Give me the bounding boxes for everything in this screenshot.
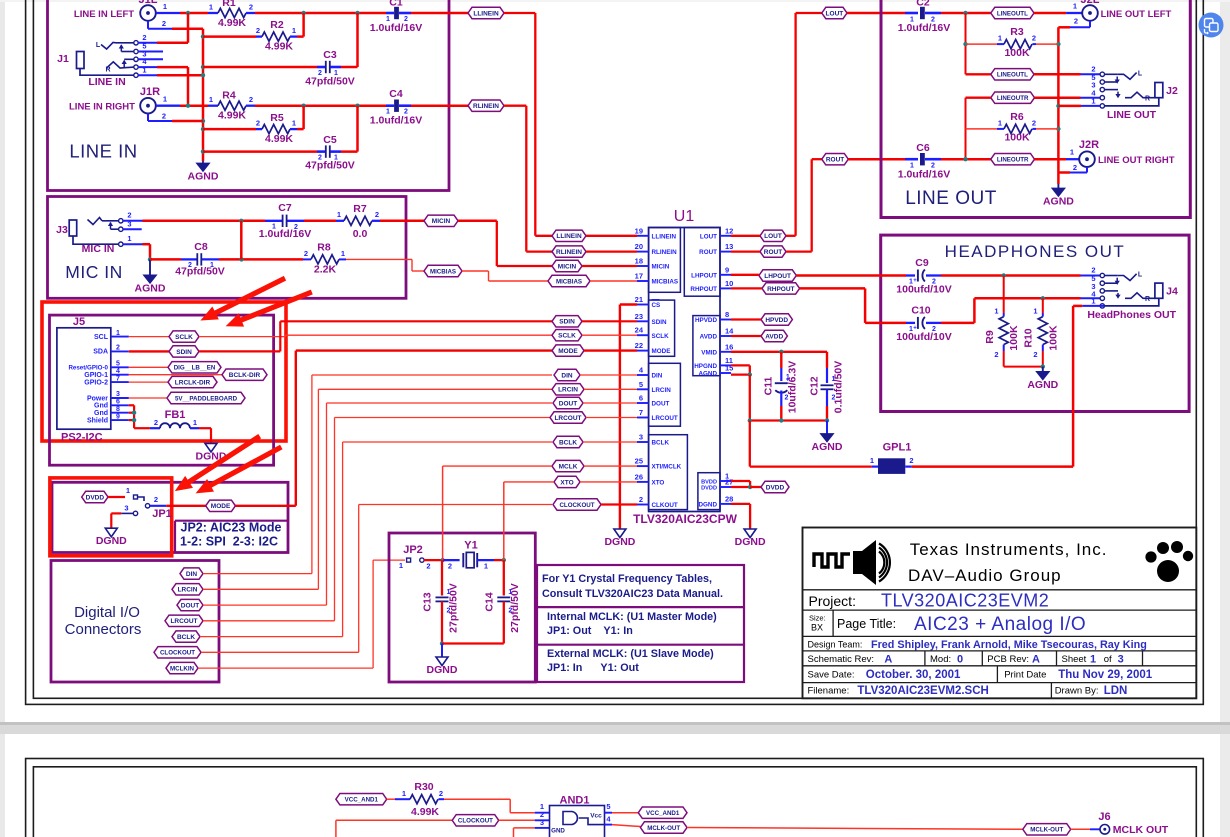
- connector J2 jack: [1100, 72, 1104, 76]
- svg-text:AGND: AGND: [698, 371, 717, 378]
- net tag SCLK (J5): [169, 331, 199, 342]
- svg-text:1: 1: [126, 486, 130, 495]
- svg-text:XTO: XTO: [560, 479, 573, 486]
- svg-text:MODE: MODE: [211, 503, 231, 510]
- wire AND1 pin5 VCC: [605, 812, 613, 814]
- svg-text:VCC_AND1: VCC_AND1: [345, 797, 379, 804]
- svg-text:4.99K: 4.99K: [218, 17, 246, 29]
- wire J1L pin2 to AGND rail: [147, 21, 149, 29]
- net tag LRCIN (digital io): [172, 584, 203, 595]
- svg-text:47pfd/50V: 47pfd/50V: [305, 76, 355, 88]
- svg-text:HPVDD: HPVDD: [695, 317, 717, 324]
- browser overlay button: [1199, 13, 1224, 38]
- net tag MICIN (U1): [552, 260, 582, 271]
- svg-text:LRCOUT: LRCOUT: [170, 618, 197, 625]
- svg-text:MCLKIN: MCLKIN: [170, 666, 195, 673]
- svg-text:R1: R1: [222, 0, 236, 9]
- svg-text:100K: 100K: [1048, 325, 1060, 351]
- resistor R10: [1042, 298, 1044, 313]
- svg-text:LLINEIN: LLINEIN: [556, 233, 582, 240]
- svg-text:J1R: J1R: [140, 86, 160, 98]
- svg-text:R10: R10: [1023, 328, 1035, 347]
- svg-text:C2: C2: [916, 0, 930, 9]
- ic U1 sub-box clock: [649, 435, 688, 510]
- pin U1 15 AGND: [720, 372, 731, 374]
- annotation arrow 4 (JP1): [209, 447, 282, 486]
- svg-text:Project:: Project:: [809, 593, 856, 609]
- svg-text:PCB Rev:: PCB Rev:: [987, 654, 1029, 665]
- wire AGND rail (line out): [1057, 27, 1060, 184]
- svg-text:JP1: JP1: [152, 508, 172, 520]
- ground DGND (Y1): [441, 644, 443, 658]
- svg-text:5: 5: [606, 802, 610, 811]
- svg-text:AVDD: AVDD: [700, 334, 718, 341]
- wire C2 to LINEOUTL tag: [941, 12, 991, 15]
- svg-text:BCLK: BCLK: [177, 634, 195, 641]
- capacitor C13: [441, 560, 443, 595]
- svg-text:Mod:: Mod:: [930, 654, 951, 665]
- svg-text:Power: Power: [87, 395, 108, 402]
- wire J5 GPIO-2: [129, 381, 168, 383]
- net tag BCLK (U1): [553, 436, 583, 447]
- net tag AVDD: [761, 330, 787, 341]
- wire C1 to LLINEIN tag: [411, 12, 468, 15]
- svg-text:47pfd/50V: 47pfd/50V: [175, 266, 225, 278]
- svg-text:1: 1: [1033, 307, 1037, 316]
- box HEADPHONES OUT: [881, 235, 1189, 411]
- wire J5 ground pins to FB1: [129, 404, 134, 406]
- svg-text:TLV320AIC23EVM2.SCH: TLV320AIC23EVM2.SCH: [857, 685, 988, 697]
- svg-text:U1: U1: [674, 208, 695, 225]
- wire MICBIAS to U1: [462, 270, 489, 272]
- box Digital I/O Connectors: [51, 561, 219, 683]
- wire mic bias vertical: [240, 221, 243, 260]
- svg-text:MCLK: MCLK: [559, 464, 578, 471]
- svg-text:1: 1: [193, 418, 197, 427]
- pin U1 10 RHPOUT: [720, 287, 731, 289]
- wire R8 to MICBIAS tag: [346, 258, 412, 260]
- connector J4 body: [1155, 283, 1163, 298]
- svg-text:LOUT: LOUT: [764, 233, 782, 240]
- svg-text:6: 6: [639, 394, 643, 403]
- svg-text:AGND: AGND: [812, 441, 843, 453]
- resistor R6: [966, 128, 998, 130]
- svg-text:LDN: LDN: [1104, 685, 1128, 697]
- wire J1 pin4 to J1R node: [157, 66, 188, 69]
- svg-text:HPGND: HPGND: [694, 363, 717, 370]
- svg-text:A: A: [1032, 654, 1040, 666]
- wire MCLKIN to JP2: [198, 667, 373, 669]
- svg-text:C12: C12: [809, 376, 821, 395]
- wire R7 to MICIN tag: [380, 220, 424, 223]
- svg-text:C5: C5: [323, 134, 337, 146]
- pin U1 9 LHPOUT: [720, 274, 731, 276]
- svg-text:MCLK-OUT: MCLK-OUT: [647, 825, 680, 832]
- svg-text:27pfd/50V: 27pfd/50V: [509, 583, 521, 633]
- svg-text:1: 1: [163, 95, 167, 104]
- svg-text:MICBIAS: MICBIAS: [430, 268, 456, 275]
- svg-text:100K: 100K: [1008, 325, 1020, 351]
- svg-text:LINE OUT: LINE OUT: [1107, 109, 1157, 121]
- resistor R9: [1003, 276, 1005, 314]
- wire CLOCKOUT to AND1 pin2: [499, 819, 535, 821]
- net tag CLOCKOUT (page2): [335, 820, 337, 837]
- svg-text:MODE: MODE: [558, 348, 578, 355]
- wire C6 to LINEOUTR tag: [941, 158, 991, 161]
- svg-text:LRCOUT: LRCOUT: [652, 415, 678, 422]
- svg-text:AGND: AGND: [188, 171, 219, 183]
- svg-text:DOUT: DOUT: [652, 401, 670, 408]
- net tag LINEOUTR (jack): [991, 92, 1035, 103]
- svg-text:MICBIAS: MICBIAS: [652, 279, 679, 286]
- net tag LHPOUT (U1): [759, 270, 796, 281]
- wire C11/C12 ground row: [750, 419, 827, 421]
- svg-text:JP2: AIC23 Mode: JP2: AIC23 Mode: [181, 521, 282, 535]
- wire SCLK to U1: [199, 336, 286, 338]
- svg-text:R9: R9: [984, 330, 996, 344]
- svg-text:1: 1: [292, 26, 296, 35]
- svg-text:VMID: VMID: [701, 349, 717, 356]
- svg-text:VCC_AND1: VCC_AND1: [646, 810, 680, 817]
- svg-text:2: 2: [375, 210, 379, 219]
- wire R3 to AGND rail: [1036, 43, 1058, 45]
- svg-text:2: 2: [909, 456, 913, 465]
- wire J2R pin2: [1086, 167, 1088, 173]
- svg-text:13: 13: [725, 242, 733, 251]
- svg-text:LRCIN: LRCIN: [178, 587, 198, 594]
- svg-text:BX: BX: [811, 623, 823, 633]
- svg-text:23: 23: [635, 312, 643, 321]
- ic U1 sub-box line out: [684, 228, 720, 297]
- net tag CLOCKOUT (digital io): [154, 647, 201, 658]
- annotation box J5 (red): [42, 302, 286, 441]
- text Save Date row: [996, 666, 998, 683]
- net tag LINEOUTL (jack): [966, 73, 991, 75]
- net tag LINEOUTL (top): [991, 7, 1034, 18]
- pin U1 14 AVDD: [720, 335, 731, 337]
- svg-text:12: 12: [725, 226, 733, 235]
- svg-text:LINE OUT: LINE OUT: [905, 188, 997, 209]
- capacitor C12: [826, 352, 828, 368]
- svg-text:FB1: FB1: [165, 409, 186, 421]
- net tag LLINEIN (U1): [552, 230, 586, 241]
- net tag MICBIAS (mic box): [424, 265, 462, 276]
- svg-text:LOUT: LOUT: [826, 10, 844, 17]
- net tag SDIN (J5): [169, 346, 199, 357]
- ground AGND (mic in): [149, 259, 151, 275]
- resistor R4: [208, 105, 218, 107]
- ground DGND (CS): [614, 529, 626, 538]
- svg-text:4.99K: 4.99K: [265, 133, 293, 145]
- wire C5 to R4 out: [341, 150, 358, 153]
- svg-text:AVDD: AVDD: [765, 333, 783, 340]
- svg-text:AGND: AGND: [1027, 379, 1058, 391]
- svg-text:4.99K: 4.99K: [265, 41, 293, 53]
- svg-text:Sheet: Sheet: [1062, 654, 1087, 665]
- svg-text:1: 1: [1091, 96, 1095, 105]
- svg-text:For Y1 Crystal Frequency Table: For Y1 Crystal Frequency Tables,: [542, 573, 712, 585]
- svg-text:SCLK: SCLK: [175, 334, 193, 341]
- svg-text:AGND: AGND: [1043, 196, 1074, 208]
- wire R9/R10 ground row: [1004, 366, 1043, 368]
- svg-text:C6: C6: [916, 142, 930, 154]
- wire C4 to RLINEIN tag: [411, 104, 468, 107]
- net tag SDIN (U1): [552, 316, 582, 327]
- svg-text:ROUT: ROUT: [826, 157, 844, 164]
- net tag LRCLK-DIR: [168, 376, 217, 387]
- svg-text:100K: 100K: [1004, 47, 1030, 59]
- connector J2 body: [1155, 83, 1163, 98]
- wire LINEOUTL tag to J2 pin2: [1034, 73, 1081, 76]
- svg-text:Design Team:: Design Team:: [808, 640, 863, 650]
- capacitor C2: [905, 12, 918, 15]
- svg-text:Thu Nov 29, 2001: Thu Nov 29, 2001: [1058, 669, 1153, 681]
- capacitor C9: [906, 274, 915, 276]
- wire J3 pin2 row: [123, 220, 143, 222]
- svg-text:2: 2: [154, 418, 158, 427]
- svg-text:LINE IN RIGHT: LINE IN RIGHT: [69, 102, 135, 113]
- svg-text:0.1ufd/50V: 0.1ufd/50V: [833, 361, 845, 414]
- wire JP2 pin2 to Y1: [424, 559, 443, 561]
- svg-text:Size:: Size:: [809, 614, 826, 623]
- box J5 PS2-I2C: [50, 315, 274, 465]
- capacitor C5: [203, 150, 317, 153]
- capacitor C11: [780, 352, 782, 368]
- net tag VCC_AND1 (right): [638, 807, 687, 818]
- wire J3 pin1 to AGND: [123, 243, 143, 245]
- svg-text:C7: C7: [278, 202, 292, 214]
- wire LINEOUTL node vertical: [965, 13, 967, 74]
- svg-text:16: 16: [725, 342, 733, 351]
- svg-text:1.0ufd/16V: 1.0ufd/16V: [259, 228, 312, 240]
- svg-text:J3: J3: [56, 224, 68, 236]
- svg-text:25: 25: [635, 457, 643, 466]
- svg-text:Drawn By:: Drawn By:: [1055, 686, 1099, 697]
- pin U1 16 VMID: [720, 351, 731, 353]
- svg-text:Gnd: Gnd: [94, 403, 108, 410]
- svg-text:MIC IN: MIC IN: [65, 262, 122, 282]
- svg-text:DVDD: DVDD: [766, 484, 785, 491]
- wire BVDD/DVDD join: [731, 480, 750, 482]
- AGND rail junction dots: [201, 34, 205, 38]
- ground DGND (JP1): [105, 528, 117, 537]
- svg-text:LINE IN: LINE IN: [69, 141, 137, 162]
- svg-text:SCLK: SCLK: [652, 333, 670, 340]
- svg-text:100K: 100K: [1004, 132, 1030, 144]
- wire RLINEIN to U1: [504, 105, 526, 107]
- svg-text:C10: C10: [911, 305, 930, 317]
- net tag DIG_LB_EN: [168, 362, 221, 373]
- wire J1 tip-L to J1L node: [187, 13, 190, 43]
- capacitor C6: [905, 158, 918, 161]
- svg-text:RLINEIN: RLINEIN: [473, 103, 499, 110]
- pin U1 17 MICBIAS: [637, 280, 649, 282]
- svg-text:DGND: DGND: [427, 664, 458, 676]
- wire DIN to U1: [203, 573, 312, 575]
- svg-text:26: 26: [635, 472, 643, 481]
- pin U1 19 LLINEIN: [637, 235, 649, 237]
- wire R4 to C4: [255, 104, 386, 107]
- net tag BCLK-DIR: [222, 369, 267, 380]
- net tag MCLK-OUT (AND1): [640, 822, 687, 833]
- wire MICIN to U1: [458, 220, 497, 223]
- svg-text:R8: R8: [317, 242, 331, 254]
- svg-text:1: 1: [399, 561, 403, 570]
- wire C13/C14 ground row: [442, 642, 504, 644]
- svg-text:1: 1: [484, 562, 488, 571]
- net tag MCLK-OUT (J6): [1023, 824, 1071, 835]
- svg-text:DIG__LB__EN: DIG__LB__EN: [174, 365, 216, 372]
- svg-text:J2: J2: [1166, 85, 1178, 97]
- svg-text:2: 2: [256, 119, 260, 128]
- svg-text:LINEOUTL: LINEOUTL: [997, 10, 1028, 17]
- svg-text:10: 10: [725, 279, 733, 288]
- svg-text:2: 2: [448, 562, 452, 571]
- wire LINEOUTR to J2R: [1035, 158, 1067, 161]
- svg-text:DIN: DIN: [652, 373, 663, 380]
- ic U1 sub-box power: [693, 316, 720, 376]
- wire J5 GPIO-1: [129, 374, 222, 376]
- ground DGND (J5): [205, 443, 217, 452]
- svg-text:2: 2: [439, 789, 443, 798]
- svg-text:2: 2: [1074, 17, 1078, 26]
- svg-text:C13: C13: [422, 592, 434, 611]
- svg-text:L: L: [96, 42, 101, 49]
- box LINE IN: [48, 0, 450, 191]
- svg-text:1: 1: [209, 3, 213, 12]
- svg-text:L: L: [1138, 272, 1143, 279]
- svg-text:2: 2: [127, 211, 131, 220]
- pin U1 5 LRCIN: [637, 388, 649, 390]
- svg-text:1: 1: [1073, 2, 1077, 11]
- wire LRCOUT to U1: [203, 620, 335, 622]
- wire AGND rail vertical: [202, 29, 205, 161]
- wire J1 pin1 sleeve to AGND rail: [157, 74, 203, 77]
- svg-text:LRCIN: LRCIN: [652, 387, 672, 394]
- net tag MICBIAS (U1): [548, 275, 590, 286]
- annotation arrow 2 (J5): [240, 292, 312, 321]
- net tag LOUT (U1): [760, 230, 786, 241]
- box JP1/JP2 note: [52, 482, 288, 552]
- resistor R5: [203, 128, 256, 131]
- svg-text:C11: C11: [763, 377, 775, 396]
- svg-text:JP1: Out Y1: In: JP1: Out Y1: In: [547, 625, 633, 637]
- wire DOUT to U1: [203, 604, 327, 606]
- svg-text:Reset/GPIO-0: Reset/GPIO-0: [68, 365, 108, 372]
- svg-text:4.99K: 4.99K: [411, 806, 439, 818]
- wire J5 Power: [129, 397, 167, 399]
- svg-text:GPL1: GPL1: [883, 442, 912, 454]
- svg-text:2: 2: [426, 562, 430, 571]
- svg-text:2: 2: [1032, 34, 1036, 43]
- pin U1 23 SDIN: [637, 320, 649, 322]
- svg-text:27pfd/50V: 27pfd/50V: [448, 583, 460, 633]
- wire U1 CS to DGND: [620, 303, 637, 305]
- svg-text:18: 18: [635, 257, 643, 266]
- net tag SCLK (U1): [552, 330, 582, 341]
- svg-text:7: 7: [639, 408, 643, 417]
- svg-text:2: 2: [994, 350, 998, 359]
- pin U1 20 RLINEIN: [637, 251, 649, 253]
- svg-text:28: 28: [725, 494, 733, 503]
- box Y1 crystal: [389, 533, 535, 682]
- wire J2L pin2: [1089, 21, 1091, 28]
- svg-text:Schematic Rev:: Schematic Rev:: [808, 654, 875, 665]
- svg-text:20: 20: [635, 242, 643, 251]
- wire MCLK-OUT long: [687, 828, 1023, 830]
- svg-text:LLINEIN: LLINEIN: [473, 10, 499, 17]
- svg-text:L: L: [1138, 71, 1143, 78]
- resistor R7: [304, 220, 336, 223]
- svg-text:DGND: DGND: [604, 536, 635, 548]
- svg-text:9: 9: [725, 265, 729, 274]
- svg-text:1: 1: [1070, 148, 1074, 157]
- net tag LRCIN (U1): [552, 384, 584, 395]
- ground AGND (line in): [202, 161, 204, 163]
- svg-text:HeadPhones OUT: HeadPhones OUT: [1087, 309, 1176, 321]
- svg-text:XTO: XTO: [652, 480, 665, 487]
- svg-text:24: 24: [635, 326, 644, 335]
- svg-text:LINE IN: LINE IN: [88, 76, 125, 88]
- ground AGND (C11/C12): [826, 421, 828, 434]
- svg-text:Filename:: Filename:: [808, 686, 850, 697]
- pin U1 12 LOUT: [720, 235, 731, 237]
- svg-text:RHPOUT: RHPOUT: [767, 286, 794, 293]
- box crystal notes: [537, 565, 744, 682]
- annotation box JP1 (red): [50, 478, 172, 556]
- svg-text:3: 3: [1118, 654, 1124, 666]
- net tag MCLKIN (digital io): [166, 662, 198, 673]
- svg-text:MCLK OUT: MCLK OUT: [1113, 824, 1169, 836]
- box MIC IN: [48, 197, 407, 299]
- net tag MICIN (mic box): [424, 215, 458, 226]
- capacitor C3: [203, 66, 317, 69]
- svg-text:HEADPHONES OUT: HEADPHONES OUT: [945, 242, 1126, 261]
- wire J5 SDA to SDIN tag: [129, 350, 169, 352]
- svg-text:47pfd/50V: 47pfd/50V: [305, 160, 355, 172]
- pin U1 6 DOUT: [637, 402, 649, 404]
- svg-text:Connectors: Connectors: [65, 621, 142, 638]
- svg-text:5V__PADDLEBOARD: 5V__PADDLEBOARD: [175, 395, 238, 402]
- svg-text:1: 1: [292, 119, 296, 128]
- svg-text:Consult TLV320AIC23 Data Manua: Consult TLV320AIC23 Data Manual.: [542, 588, 723, 600]
- svg-text:DGND: DGND: [96, 535, 127, 547]
- pin U1 8 HPVDD: [720, 319, 731, 321]
- svg-text:RHPOUT: RHPOUT: [690, 286, 717, 293]
- wire MCLK to crystal node: [442, 466, 444, 560]
- svg-text:LINEOUTL: LINEOUTL: [997, 72, 1028, 79]
- svg-text:3: 3: [124, 504, 128, 513]
- capacitor C4: [386, 104, 394, 107]
- svg-text:Shield: Shield: [87, 417, 108, 424]
- svg-text:MICIN: MICIN: [652, 264, 670, 271]
- svg-text:1: 1: [402, 789, 406, 798]
- svg-text:ROUT: ROUT: [699, 249, 717, 256]
- svg-text:2: 2: [256, 26, 260, 35]
- svg-text:1: 1: [998, 34, 1002, 43]
- svg-text:1.0ufd/16V: 1.0ufd/16V: [370, 22, 423, 34]
- pin U1 13 ROUT: [720, 251, 731, 253]
- svg-text:1: 1: [998, 118, 1002, 127]
- annotation arrow 3 (JP1): [187, 436, 259, 483]
- pin U1 27 DVDD: [720, 486, 731, 488]
- connector J4 jack: [1100, 273, 1104, 277]
- svg-text:Digital I/O: Digital I/O: [74, 604, 140, 621]
- svg-text:CS: CS: [652, 302, 661, 309]
- wire LINEOUTL to J2L: [1034, 12, 1066, 15]
- svg-text:MCLK-OUT: MCLK-OUT: [1030, 827, 1063, 834]
- pin U1 18 MICIN: [637, 265, 649, 267]
